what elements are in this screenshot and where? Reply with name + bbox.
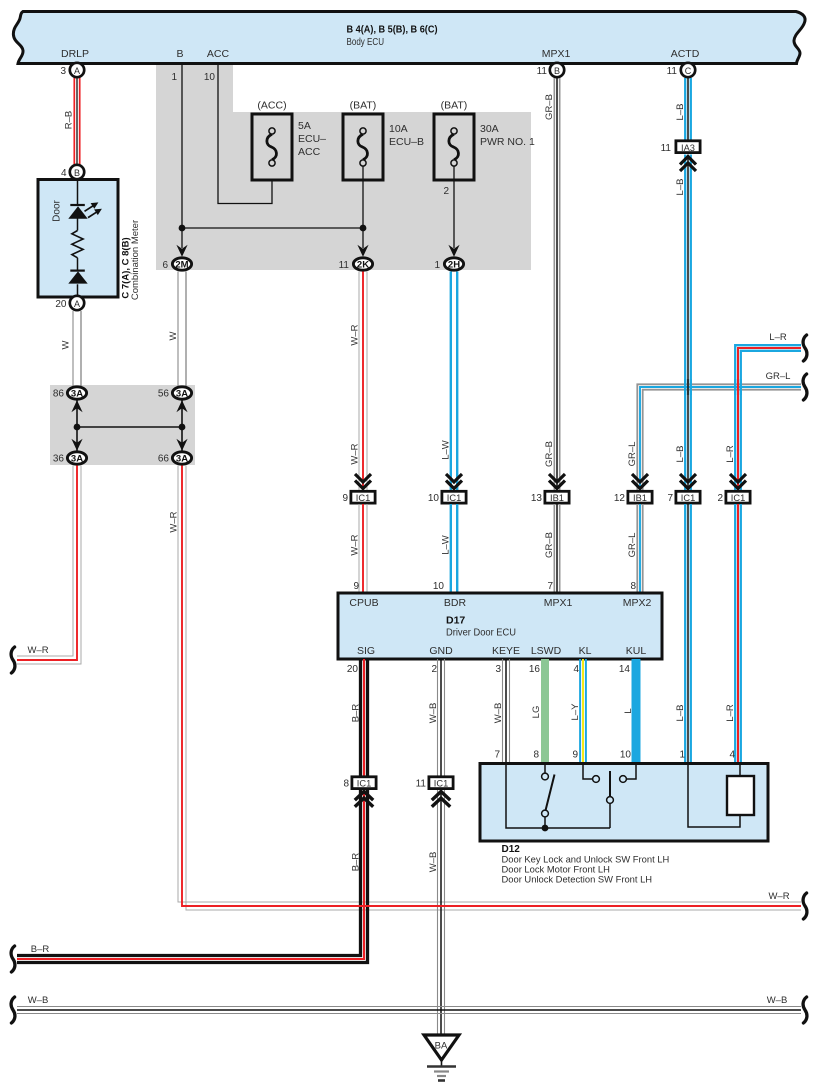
pin 3 connector A of Body ECU — [60, 63, 84, 77]
svg-text:IC1: IC1 — [447, 493, 461, 503]
svg-text:11: 11 — [537, 66, 548, 77]
chevron arrows into 8 IC1 — [355, 792, 373, 807]
wire break symbol left B-R — [11, 946, 15, 972]
svg-text:A: A — [74, 299, 80, 309]
svg-text:ACTD: ACTD — [671, 48, 700, 60]
svg-text:PWR NO. 1: PWR NO. 1 — [480, 136, 535, 148]
gray harness area (3A junction block) — [50, 385, 195, 465]
wire L-R continuing from IC1 pin2 down to D12 pin 4 — [735, 504, 741, 763]
junction node on B wire — [179, 225, 186, 232]
svg-text:L–W: L–W — [441, 440, 452, 460]
svg-text:W–R: W–R — [350, 443, 361, 464]
svg-text:L–B: L–B — [675, 446, 686, 463]
pin 4 connector B of combination meter — [61, 165, 84, 179]
junction node right — [179, 424, 186, 431]
wire W from 2M down to 3A junction — [178, 272, 186, 387]
D12 key lock switch (pin 8) — [542, 764, 555, 829]
svg-text:16: 16 — [529, 664, 541, 675]
svg-text:5A: 5A — [298, 120, 311, 132]
diode inside meter — [68, 271, 87, 284]
svg-text:IB1: IB1 — [633, 493, 647, 503]
svg-text:GR–B: GR–B — [544, 532, 555, 558]
svg-text:7: 7 — [667, 493, 673, 504]
svg-text:8: 8 — [533, 750, 539, 761]
svg-text:20: 20 — [55, 299, 67, 310]
svg-text:6: 6 — [162, 260, 168, 271]
svg-text:4: 4 — [729, 750, 735, 761]
wire W-R from 2K to IC1 — [359, 272, 367, 491]
svg-text:IC1: IC1 — [356, 493, 370, 503]
chevron arrows into 7 IC1 — [680, 474, 696, 489]
svg-text:56: 56 — [158, 389, 170, 400]
connector IC1 pin 10 — [428, 491, 466, 504]
wire L-B continuing from IC1 pin7 down to D12 pin 1 — [685, 504, 691, 763]
wire from fuse 10A down to 2K — [362, 166, 364, 248]
fuse 10A ECU-B — [343, 100, 424, 181]
svg-text:8: 8 — [343, 779, 349, 790]
svg-text:W–B: W–B — [428, 703, 439, 724]
svg-text:2: 2 — [443, 186, 449, 197]
svg-text:MPX2: MPX2 — [623, 597, 652, 609]
svg-text:1: 1 — [171, 72, 177, 83]
svg-text:(BAT): (BAT) — [350, 100, 377, 112]
chevron arrows into 9 IC1 — [355, 474, 371, 489]
svg-text:KL: KL — [579, 645, 592, 657]
svg-text:KUL: KUL — [626, 645, 647, 657]
svg-text:Driver Door ECU: Driver Door ECU — [446, 627, 516, 639]
wire GR-B from IB1 to D17 MPX1 — [554, 504, 559, 593]
svg-text:BA: BA — [435, 1040, 448, 1051]
svg-text:3A: 3A — [71, 388, 83, 399]
svg-text:MPX1: MPX1 — [542, 48, 571, 60]
arrow up into 86-3A — [71, 400, 82, 412]
svg-text:A: A — [74, 66, 80, 76]
wire break symbol left W-B — [11, 997, 15, 1023]
resistor inside meter — [72, 231, 83, 258]
chevron arrows into 2 IC1 — [730, 474, 746, 489]
svg-text:3: 3 — [495, 664, 501, 675]
D12 internal wire from pin 7 — [506, 764, 610, 829]
svg-text:Body ECU: Body ECU — [347, 37, 385, 48]
wire GR-L entry from right harness break — [637, 384, 801, 490]
wire L-B from IA3 down to IC1 pin 7 — [685, 155, 691, 491]
svg-text:4: 4 — [573, 664, 579, 675]
svg-text:11: 11 — [661, 143, 672, 154]
combination meter C7(A) C8(B) box — [38, 180, 118, 298]
wire W-R from IC1 to D17 CPUB — [359, 504, 367, 593]
arrow into 2M — [176, 245, 187, 257]
connector 3A pin 36 — [53, 452, 87, 465]
pin 11 connector C ACTD of Body ECU — [667, 63, 696, 77]
svg-text:9: 9 — [572, 750, 578, 761]
svg-text:86: 86 — [53, 389, 65, 400]
svg-text:4: 4 — [61, 168, 67, 179]
connector IA3 pin 11 — [661, 141, 700, 154]
connector 3A pin 86 — [53, 387, 87, 400]
svg-text:W–B: W–B — [493, 703, 504, 724]
wire B from Body ECU pin 1 — [181, 64, 183, 248]
wire W-R red core over crossings — [340, 905, 470, 907]
svg-text:14: 14 — [619, 664, 631, 675]
svg-text:W: W — [168, 331, 179, 340]
svg-text:ECU–B: ECU–B — [389, 136, 424, 148]
connector 3A pin 66 — [158, 452, 192, 465]
connector 3A pin 56 — [158, 387, 192, 400]
svg-text:BDR: BDR — [444, 597, 467, 609]
fuse 5A ECU-ACC — [252, 100, 326, 181]
svg-text:IC1: IC1 — [731, 493, 745, 503]
D12 unlock detection switch (pins 9,10) — [583, 764, 636, 829]
svg-text:10: 10 — [428, 493, 440, 504]
svg-text:B: B — [74, 168, 80, 178]
arrow down into 36-3A — [71, 439, 82, 451]
wire W-R from 36-3A down and left to harness break — [17, 466, 81, 665]
svg-text:GR–L: GR–L — [766, 371, 791, 382]
wire inside meter — [77, 180, 79, 296]
wire from fuse 30A pin 2 down to 2H — [453, 166, 455, 248]
svg-text:7: 7 — [547, 581, 553, 592]
D12 junction node — [542, 825, 549, 832]
D12 lock motor — [688, 764, 754, 828]
wire break symbol right L-R — [803, 335, 807, 361]
svg-text:SIG: SIG — [357, 645, 375, 657]
ground BA — [424, 1035, 459, 1081]
wire GR-B from MPX1 to IB1 — [554, 78, 559, 491]
svg-text:3A: 3A — [71, 453, 83, 464]
Body ECU box — [13, 12, 805, 64]
junction node on 10A fuse wire — [360, 225, 367, 232]
connector 2M pin 6 — [162, 258, 191, 271]
svg-text:GR–L: GR–L — [627, 442, 638, 467]
svg-text:12: 12 — [614, 493, 626, 504]
svg-text:2K: 2K — [357, 259, 369, 270]
pin 20 connector A of combination meter — [55, 296, 84, 310]
wire break symbol right W-R — [803, 893, 807, 919]
svg-text:LG: LG — [531, 706, 542, 719]
svg-text:W–B: W–B — [28, 995, 49, 1006]
gray harness area (fuse block) — [156, 64, 531, 270]
svg-text:2: 2 — [431, 664, 437, 675]
chevron arrows into 13 IB1 — [549, 474, 565, 489]
svg-text:W–R: W–R — [27, 645, 48, 656]
svg-text:IC1: IC1 — [357, 779, 371, 789]
chevron arrows into 10 IC1 — [446, 474, 462, 489]
fuse 30A PWR NO.1 — [434, 100, 535, 181]
svg-text:30A: 30A — [480, 123, 499, 135]
svg-text:2M: 2M — [175, 259, 188, 270]
svg-text:GR–B: GR–B — [544, 94, 555, 120]
svg-text:W–B: W–B — [767, 995, 788, 1006]
svg-text:Door: Door — [52, 199, 63, 221]
svg-text:1: 1 — [434, 260, 440, 271]
svg-text:C: C — [685, 66, 692, 76]
svg-text:L–W: L–W — [441, 535, 452, 555]
svg-text:B: B — [176, 48, 183, 60]
svg-text:L–B: L–B — [675, 104, 686, 121]
svg-text:R–B: R–B — [64, 111, 75, 129]
arrow into 2K — [357, 245, 368, 257]
wire LG from D17 LSWD to D12 pin 8 — [541, 659, 549, 763]
wire break symbol right GR-L — [803, 374, 807, 400]
wire W-B horizontal bottom — [17, 1007, 801, 1014]
wire L-B from ACTD down to IA3 — [685, 78, 691, 140]
svg-text:B–R: B–R — [31, 944, 50, 955]
svg-text:D17: D17 — [446, 615, 465, 627]
svg-text:MPX1: MPX1 — [544, 597, 573, 609]
svg-text:L–B: L–B — [675, 179, 686, 196]
D17 Driver Door ECU box — [338, 593, 662, 659]
D12 caption — [502, 844, 670, 884]
chevron arrows into IA3 — [680, 157, 696, 172]
svg-text:2H: 2H — [448, 259, 460, 270]
connector 2H pin 1 — [434, 258, 463, 271]
connector IC1 pin 7 — [667, 491, 700, 504]
svg-text:Combination Meter: Combination Meter — [130, 220, 141, 300]
svg-text:8: 8 — [630, 581, 636, 592]
wire L-R over GR-L crossing — [735, 379, 741, 395]
svg-text:B 4(A), B 5(B), B 6(C): B 4(A), B 5(B), B 6(C) — [347, 25, 438, 36]
wire R-B from DRLP pin 3 to combination meter — [74, 64, 79, 165]
svg-text:IC1: IC1 — [434, 779, 448, 789]
svg-text:66: 66 — [158, 454, 170, 465]
connector IC1 pin 11 — [416, 777, 453, 790]
svg-text:L: L — [623, 708, 634, 713]
svg-text:L–B: L–B — [675, 705, 686, 722]
svg-text:1: 1 — [679, 750, 685, 761]
svg-text:W–R: W–R — [169, 511, 180, 532]
3A junction: connecting lines — [77, 400, 182, 451]
svg-text:3: 3 — [60, 66, 66, 77]
wire L-W from IC1 to D17 BDR — [451, 504, 457, 593]
junction node left — [74, 424, 81, 431]
svg-text:W: W — [61, 340, 72, 349]
svg-text:IA3: IA3 — [681, 143, 695, 153]
svg-text:LSWD: LSWD — [531, 645, 562, 657]
svg-text:L–R: L–R — [725, 704, 736, 722]
svg-text:B: B — [554, 66, 560, 76]
wire W-B from D17 GND down through IC1 to ground — [438, 659, 445, 1035]
svg-text:GR–B: GR–B — [544, 441, 555, 467]
svg-text:ACC: ACC — [207, 48, 230, 60]
bus wire joining pin1 and fuse outputs — [182, 227, 363, 229]
svg-text:GR–L: GR–L — [627, 533, 638, 558]
svg-text:20: 20 — [347, 664, 359, 675]
svg-text:L–Y: L–Y — [570, 703, 581, 721]
svg-text:IB1: IB1 — [550, 493, 564, 503]
svg-text:IC1: IC1 — [681, 493, 695, 503]
svg-text:KEYE: KEYE — [492, 645, 520, 657]
svg-text:CPUB: CPUB — [349, 597, 378, 609]
connector IC1 pin 2 — [717, 491, 750, 504]
arrow up into 56-3A — [176, 400, 187, 412]
svg-text:GND: GND — [429, 645, 453, 657]
wire L-R entry from right harness break — [735, 345, 801, 490]
svg-text:W–R: W–R — [350, 534, 361, 555]
svg-text:L–R: L–R — [725, 445, 736, 463]
svg-text:3A: 3A — [176, 388, 188, 399]
wire L-B over GR-L crossing — [685, 379, 691, 395]
wire break symbol right W-B — [803, 997, 807, 1023]
svg-text:DRLP: DRLP — [61, 48, 89, 60]
svg-text:2: 2 — [717, 493, 723, 504]
wire ACC from Body ECU pin 10 to fuse ECU-ACC — [218, 64, 272, 204]
svg-text:3A: 3A — [176, 453, 188, 464]
svg-text:(ACC): (ACC) — [257, 100, 286, 112]
connector IC1 pin 8 — [343, 777, 376, 790]
svg-text:13: 13 — [531, 493, 543, 504]
chevron arrows into 12 IB1 — [632, 474, 648, 489]
wire GR-L from IB1 to D17 MPX2 — [637, 504, 642, 593]
connector 2K pin 11 — [339, 258, 373, 271]
pin 11 connector B MPX1 of Body ECU — [537, 63, 565, 77]
svg-text:ECU–: ECU– — [298, 133, 326, 145]
connector IB1 pin 12 — [614, 491, 652, 504]
wire W-B from D17 KEYE to D12 pin 7 — [503, 659, 510, 763]
LED D (door indicator) — [68, 202, 102, 218]
svg-text:11: 11 — [339, 260, 350, 271]
wire B-R from D17 SIG down through IC1 to harness break — [17, 659, 368, 963]
label C 7(A), C 8(B) Combination Meter — [121, 220, 142, 300]
wire L from D17 KUL to D12 pin 10 — [632, 659, 641, 763]
svg-text:9: 9 — [353, 581, 359, 592]
svg-text:B–R: B–R — [351, 853, 362, 872]
chevron arrows into 11 IC1 — [432, 792, 450, 807]
svg-text:36: 36 — [53, 454, 65, 465]
wire L-Y from D17 KL to D12 pin 9 — [580, 659, 586, 763]
svg-text:11: 11 — [416, 779, 427, 790]
svg-text:10: 10 — [433, 581, 445, 592]
svg-text:10: 10 — [204, 72, 216, 83]
svg-text:7: 7 — [494, 750, 500, 761]
svg-text:B–R: B–R — [351, 704, 362, 723]
svg-text:Door Unlock Detection SW Front: Door Unlock Detection SW Front LH — [502, 873, 653, 884]
svg-text:W–R: W–R — [768, 891, 789, 902]
wire W-R from 66-3A down and right to harness break — [178, 466, 801, 911]
wire L-W from 2H to IC1 — [451, 272, 457, 491]
connector IB1 pin 13 — [531, 491, 569, 504]
arrow into 2H — [448, 245, 459, 257]
wire break symbol left W-R — [11, 647, 15, 673]
svg-text:9: 9 — [342, 493, 348, 504]
svg-text:W–B: W–B — [428, 852, 439, 873]
svg-text:W–R: W–R — [350, 324, 361, 345]
arrow down into 66-3A — [176, 439, 187, 451]
svg-text:L–R: L–R — [769, 332, 787, 343]
svg-text:(BAT): (BAT) — [441, 100, 468, 112]
svg-text:ACC: ACC — [298, 146, 321, 158]
svg-text:10A: 10A — [389, 123, 408, 135]
D12 box — [480, 764, 768, 842]
svg-text:11: 11 — [667, 66, 678, 77]
wire W from meter pin 20 to junction 3A — [73, 311, 81, 386]
svg-text:10: 10 — [620, 750, 632, 761]
connector IC1 pin 9 — [342, 491, 375, 504]
